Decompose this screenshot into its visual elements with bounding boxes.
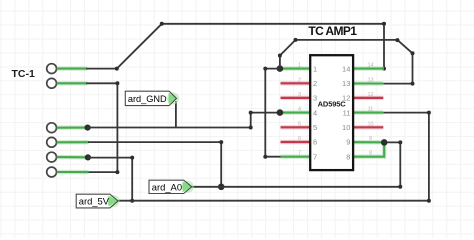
svg-text:4: 4	[298, 107, 301, 113]
svg-text:5: 5	[298, 121, 301, 127]
wire IC pin1 to IC pin7	[263, 67, 281, 159]
svg-text:9: 9	[369, 136, 372, 142]
IC pin 5 stub (red, no connection)	[281, 125, 310, 129]
svg-text:8: 8	[346, 152, 350, 161]
svg-text:10: 10	[367, 121, 373, 127]
svg-text:1: 1	[313, 64, 317, 73]
connector J2 pin 1	[47, 123, 57, 133]
svg-text:14: 14	[367, 63, 373, 69]
IC pin 4 stub (green)	[280, 110, 310, 114]
svg-text:4: 4	[313, 108, 317, 117]
IC U1 AD595C body	[310, 55, 353, 170]
net label ard_5V	[76, 194, 119, 208]
svg-text:6: 6	[298, 136, 301, 142]
wire TC-1 pin2 stub (green)	[57, 81, 87, 85]
wire J2 pin4 stub (green)	[57, 170, 89, 175]
svg-text:13: 13	[342, 79, 350, 88]
wire J2 pin1 stub (green)	[57, 125, 88, 129]
IC pin 7 stub (green)	[281, 154, 311, 158]
wire TC-1 pin1 to top rail and down to IC pin 14	[86, 22, 386, 71]
IC pin 2 stub (red, no connection)	[281, 81, 310, 85]
svg-text:12: 12	[342, 94, 350, 103]
wire TC-1 pin1 stub (green)	[57, 66, 87, 70]
IC U1 inside pin numbers left (1-7)	[313, 64, 317, 161]
IC pin 6 stub (red, no connection)	[281, 140, 310, 144]
IC pin 9 stub (green)	[353, 140, 384, 145]
junction dot at IC pin 4	[277, 109, 284, 116]
svg-text:10: 10	[342, 123, 350, 132]
junction dot on A0 rail	[218, 184, 225, 191]
IC pin 12 stub (red, no connection)	[354, 96, 383, 100]
svg-text:1: 1	[298, 63, 301, 69]
wire TC-1 pin2 down to J2 pin4	[86, 81, 119, 174]
wire J2 pin2 down to A0 rail	[88, 140, 223, 187]
junction dot at IC pin 1	[277, 65, 284, 72]
wire ard_GND label to GND rail	[175, 101, 177, 128]
svg-text:14: 14	[342, 64, 350, 73]
svg-text:13: 13	[367, 77, 373, 83]
connector TC-1 pin 2	[47, 78, 57, 88]
wire 5V rail from label to IC pin 11	[118, 111, 431, 203]
svg-text:11: 11	[343, 108, 351, 117]
svg-text:3: 3	[298, 92, 301, 98]
wire J2 pin3 down to 5V rail	[88, 156, 134, 203]
net label ard_A0	[149, 180, 194, 193]
IC pin 1 stub (green)	[280, 66, 310, 70]
IC U1 tiny leg numbers right	[367, 63, 373, 157]
connector J2 pin 4	[47, 167, 57, 177]
svg-text:ard_A0: ard_A0	[152, 181, 182, 192]
junction dot at IC pin 9	[381, 139, 388, 146]
IC pin 14 stub (green)	[353, 66, 384, 70]
wire J2 pin2 stub (green)	[57, 140, 89, 145]
svg-text:7: 7	[298, 151, 301, 157]
net label ard_GND	[125, 91, 179, 105]
wire A0 rail from label to IC pin 9 riser	[192, 140, 402, 188]
svg-text:12: 12	[367, 92, 373, 98]
IC U1 tiny leg numbers left	[298, 63, 301, 157]
junction dot 5V at J2 pin3	[85, 154, 91, 160]
wire J2 pin3 stub (green)	[57, 155, 88, 160]
IC pin 11 stub (green)	[353, 110, 383, 114]
connector J2 pin 2	[47, 137, 57, 147]
junction dot GND at J2 pin1	[85, 125, 91, 131]
connector J2 pin 3	[47, 152, 57, 162]
svg-text:3: 3	[313, 94, 317, 103]
wire IC pin1 to IC pin13 over the top	[278, 38, 415, 86]
svg-text:5: 5	[313, 123, 317, 132]
IC pin 8 stub and riser to pin 9 (green)	[353, 142, 384, 156]
svg-text:11: 11	[368, 107, 374, 113]
connector TC-1 pin 1	[47, 64, 57, 74]
svg-text:6: 6	[313, 138, 317, 147]
IC U1 inside pin numbers right (14-8)	[342, 64, 350, 161]
IC pin 3 stub (red, no connection)	[281, 96, 310, 100]
svg-text:9: 9	[346, 138, 350, 147]
svg-text:TC AMP1: TC AMP1	[308, 24, 357, 38]
svg-text:8: 8	[369, 151, 372, 157]
svg-text:ard_5V: ard_5V	[79, 196, 110, 207]
svg-text:ard_GND: ard_GND	[128, 94, 167, 104]
svg-text:2: 2	[313, 79, 317, 88]
IC pin 13 stub (green)	[353, 81, 383, 85]
svg-text:TC-1: TC-1	[12, 68, 35, 80]
svg-text:7: 7	[313, 152, 317, 161]
svg-text:2: 2	[298, 77, 301, 83]
wire GND rail to IC pin 4	[88, 111, 280, 130]
IC pin 10 stub (red, no connection)	[354, 125, 383, 129]
